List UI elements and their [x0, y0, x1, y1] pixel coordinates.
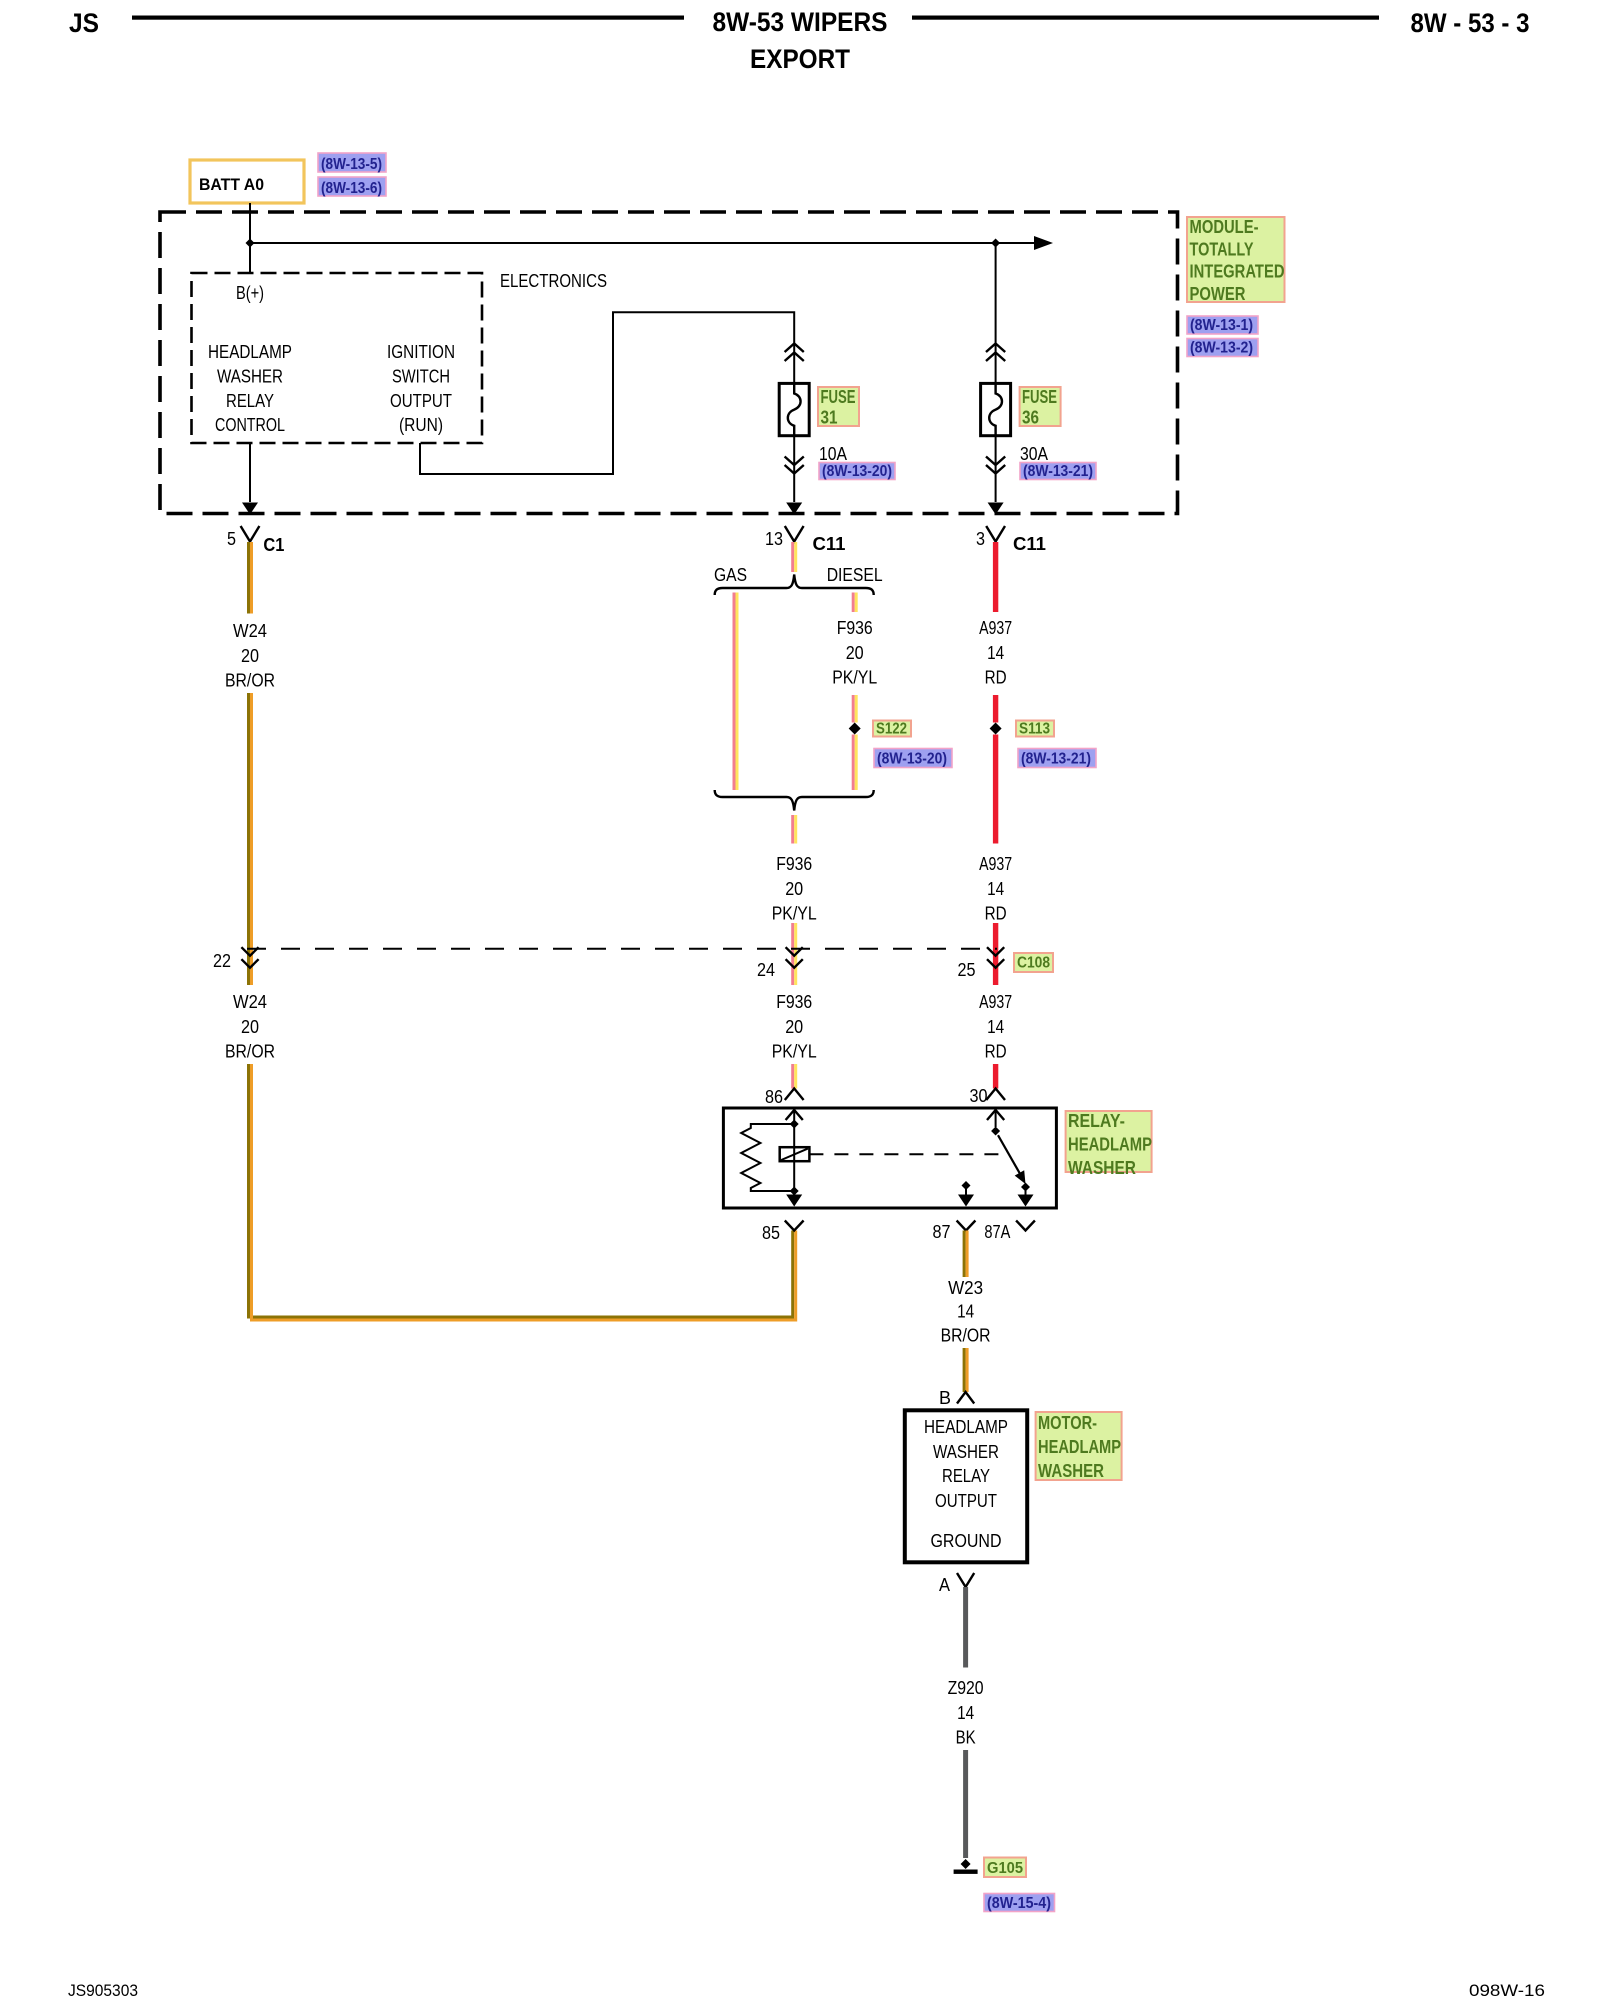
svg-text:22: 22 — [213, 951, 231, 971]
svg-text:W24: W24 — [233, 621, 267, 641]
svg-text:85: 85 — [762, 1223, 780, 1243]
svg-text:A937: A937 — [979, 618, 1012, 638]
svg-text:31: 31 — [821, 408, 838, 428]
svg-text:HEADLAMP: HEADLAMP — [208, 342, 292, 362]
svg-text:WASHER: WASHER — [1038, 1461, 1104, 1481]
svg-text:BR/OR: BR/OR — [225, 1042, 275, 1062]
svg-text:Z920: Z920 — [948, 1678, 984, 1698]
svg-text:PK/YL: PK/YL — [832, 668, 877, 688]
svg-text:20: 20 — [846, 643, 864, 663]
svg-text:30A: 30A — [1020, 444, 1048, 464]
svg-text:14: 14 — [987, 643, 1004, 663]
svg-text:(RUN): (RUN) — [399, 415, 443, 435]
svg-text:RELAY: RELAY — [942, 1466, 990, 1486]
svg-text:20: 20 — [785, 879, 803, 899]
svg-text:JS: JS — [69, 8, 99, 38]
svg-text:S122: S122 — [876, 721, 907, 738]
svg-text:PK/YL: PK/YL — [772, 904, 817, 924]
svg-text:13: 13 — [765, 529, 783, 549]
svg-text:36: 36 — [1022, 408, 1039, 428]
svg-text:B(+): B(+) — [236, 283, 264, 303]
svg-text:EXPORT: EXPORT — [750, 44, 850, 74]
svg-text:14: 14 — [957, 1302, 974, 1322]
svg-text:TOTALLY: TOTALLY — [1190, 239, 1254, 259]
svg-text:RD: RD — [985, 1042, 1007, 1062]
svg-text:C1: C1 — [263, 535, 284, 555]
svg-text:BK: BK — [956, 1728, 976, 1748]
svg-text:87: 87 — [933, 1222, 951, 1242]
svg-text:WASHER: WASHER — [933, 1442, 999, 1462]
svg-text:JS905303: JS905303 — [68, 1981, 138, 2000]
svg-text:GAS: GAS — [714, 565, 747, 585]
svg-text:86: 86 — [765, 1087, 783, 1107]
svg-text:G105: G105 — [987, 1860, 1023, 1877]
svg-text:(8W-13-20): (8W-13-20) — [822, 463, 892, 480]
svg-text:WASHER: WASHER — [1068, 1158, 1136, 1178]
svg-text:PK/YL: PK/YL — [772, 1042, 817, 1062]
svg-text:BR/OR: BR/OR — [941, 1325, 991, 1345]
svg-text:RELAY-: RELAY- — [1068, 1111, 1125, 1131]
svg-text:10A: 10A — [819, 444, 847, 464]
svg-text:87A: 87A — [984, 1222, 1010, 1242]
svg-text:(8W-13-21): (8W-13-21) — [1023, 463, 1093, 480]
svg-text:(8W-13-20): (8W-13-20) — [877, 751, 947, 768]
svg-text:HEADLAMP: HEADLAMP — [924, 1417, 1008, 1437]
svg-text:DIESEL: DIESEL — [827, 565, 883, 585]
svg-text:RELAY: RELAY — [226, 391, 274, 411]
svg-text:A: A — [939, 1575, 950, 1595]
svg-text:(8W-13-2): (8W-13-2) — [1190, 340, 1253, 357]
svg-text:HEADLAMP: HEADLAMP — [1038, 1437, 1121, 1457]
svg-text:S113: S113 — [1019, 721, 1050, 738]
svg-text:3: 3 — [976, 529, 985, 549]
svg-text:W23: W23 — [948, 1278, 983, 1298]
svg-text:C11: C11 — [1013, 534, 1046, 554]
svg-text:A937: A937 — [979, 992, 1012, 1012]
svg-text:(8W-13-5): (8W-13-5) — [321, 156, 382, 173]
svg-text:(8W-13-6): (8W-13-6) — [321, 180, 382, 197]
svg-text:C11: C11 — [813, 534, 846, 554]
svg-text:F936: F936 — [776, 992, 812, 1012]
svg-text:F936: F936 — [837, 618, 873, 638]
svg-text:(8W-13-1): (8W-13-1) — [1190, 317, 1253, 334]
svg-text:INTEGRATED: INTEGRATED — [1190, 262, 1285, 282]
svg-text:25: 25 — [958, 960, 976, 980]
svg-text:8W-53 WIPERS: 8W-53 WIPERS — [713, 7, 888, 37]
svg-text:14: 14 — [957, 1703, 974, 1723]
svg-text:OUTPUT: OUTPUT — [390, 391, 452, 411]
svg-text:FUSE: FUSE — [1022, 387, 1057, 407]
svg-text:30: 30 — [970, 1086, 988, 1106]
svg-text:ELECTRONICS: ELECTRONICS — [500, 271, 607, 291]
svg-text:(8W-13-21): (8W-13-21) — [1021, 751, 1091, 768]
svg-text:5: 5 — [227, 529, 236, 549]
svg-text:098W-16: 098W-16 — [1469, 1981, 1545, 2000]
svg-text:RD: RD — [985, 668, 1007, 688]
svg-text:GROUND: GROUND — [931, 1531, 1002, 1551]
svg-text:FUSE: FUSE — [821, 387, 856, 407]
svg-text:14: 14 — [987, 879, 1004, 899]
svg-text:W24: W24 — [233, 992, 267, 1012]
svg-text:(8W-15-4): (8W-15-4) — [987, 1895, 1051, 1912]
svg-text:14: 14 — [987, 1017, 1004, 1037]
svg-text:WASHER: WASHER — [217, 366, 283, 386]
svg-text:SWITCH: SWITCH — [392, 366, 450, 386]
svg-text:F936: F936 — [776, 854, 812, 874]
svg-text:B: B — [939, 1388, 951, 1408]
svg-text:MOTOR-: MOTOR- — [1038, 1413, 1097, 1433]
svg-text:POWER: POWER — [1190, 284, 1246, 304]
svg-text:20: 20 — [241, 646, 259, 666]
svg-text:HEADLAMP: HEADLAMP — [1068, 1134, 1152, 1154]
svg-text:CONTROL: CONTROL — [215, 415, 285, 435]
svg-text:8W - 53 - 3: 8W - 53 - 3 — [1411, 8, 1530, 38]
svg-text:OUTPUT: OUTPUT — [935, 1491, 997, 1511]
svg-text:BATT A0: BATT A0 — [199, 175, 264, 194]
svg-text:IGNITION: IGNITION — [387, 342, 455, 362]
svg-text:20: 20 — [785, 1017, 803, 1037]
svg-text:24: 24 — [757, 960, 775, 980]
svg-text:A937: A937 — [979, 854, 1012, 874]
svg-text:20: 20 — [241, 1017, 259, 1037]
svg-text:MODULE-: MODULE- — [1190, 217, 1259, 237]
svg-text:C108: C108 — [1017, 955, 1050, 972]
svg-text:RD: RD — [985, 904, 1007, 924]
svg-text:BR/OR: BR/OR — [225, 671, 275, 691]
